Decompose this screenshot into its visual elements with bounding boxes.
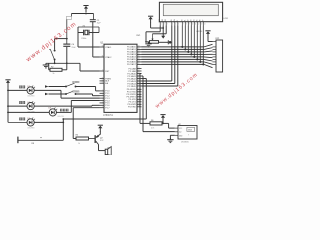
- ground reset: [43, 63, 49, 68]
- svg-text:1k: 1k: [78, 143, 80, 145]
- svg-text:30pF: 30pF: [97, 23, 101, 25]
- wire P2.2 to R6: [140, 74, 150, 124]
- wire wiper to VEE: [153, 26, 167, 34]
- wire P0 bus lines: [142, 44, 213, 67]
- svg-text:36: 36: [138, 53, 140, 55]
- node VCC rail: [72, 13, 94, 15]
- power VCC R6: [160, 115, 165, 125]
- wire rail left drop: [71, 14, 73, 17]
- U1 left pin stubs and labels: [100, 46, 113, 110]
- wire VDD: [151, 23, 164, 28]
- svg-text:D6: D6: [199, 20, 201, 22]
- svg-text:LED-YEL: LED-YEL: [58, 116, 65, 118]
- svg-text:R6: R6: [151, 120, 153, 122]
- switch SW2: [45, 91, 79, 96]
- svg-text:4.7k: 4.7k: [151, 127, 154, 129]
- power VCC Q2 emitter: [98, 125, 103, 134]
- wire RST to pin: [80, 63, 100, 71]
- svg-text:LED-RED: LED-RED: [28, 128, 36, 130]
- node label box: [66, 17, 71, 20]
- svg-text:26: 26: [138, 80, 140, 82]
- svg-text:33: 33: [138, 61, 140, 63]
- wire P2.3 to DQ: [142, 76, 175, 132]
- LED D1: [19, 86, 35, 98]
- svg-text:LCD1: LCD1: [224, 18, 229, 20]
- LED D3: [49, 108, 69, 118]
- svg-text:P2.7/A15: P2.7/A15: [127, 85, 136, 88]
- svg-text:32: 32: [138, 63, 140, 65]
- sensor U2 DS18B20: [175, 124, 197, 143]
- wire D1 to P1.3: [34, 90, 99, 98]
- wire crystal right: [98, 27, 100, 33]
- ground LCD VSS: [145, 42, 151, 47]
- U1 right pin stubs and labels: [127, 46, 142, 109]
- wire R5 to base: [89, 138, 95, 140]
- wire D3 to P1.4: [56, 101, 99, 113]
- svg-text:D7: D7: [202, 20, 204, 22]
- svg-text:1k: 1k: [53, 73, 55, 75]
- LED D2: [19, 101, 35, 113]
- wire rail to D1: [7, 90, 27, 92]
- svg-text:12: 12: [138, 93, 140, 95]
- wire E to P2.7: [142, 26, 178, 87]
- svg-text:38: 38: [138, 48, 140, 50]
- svg-text:17: 17: [138, 106, 140, 108]
- wire P1.7 to R5: [73, 108, 99, 139]
- LCD pin labels and stubs: [159, 18, 205, 25]
- resistor R2: [50, 67, 62, 76]
- wire rail right drop: [93, 14, 95, 20]
- power VCC top: [83, 6, 88, 13]
- wire VSS to ground: [146, 26, 160, 42]
- power VCC LCD VDD: [148, 16, 153, 23]
- crystal X1: [78, 25, 99, 40]
- svg-text:23: 23: [138, 72, 140, 74]
- wire R2 left: [49, 63, 50, 70]
- svg-text:18B20: 18B20: [188, 129, 193, 131]
- wire to C4: [66, 20, 68, 44]
- svg-text:10: 10: [138, 88, 140, 90]
- wire P2.4 long: [63, 79, 146, 120]
- power VCC RP1: [205, 31, 212, 42]
- wire rail to D4: [8, 121, 27, 123]
- capacitor C5: [90, 20, 101, 25]
- svg-text:21: 21: [138, 67, 140, 69]
- LCD1 LM016L display: [159, 2, 228, 33]
- svg-text:30: 30: [102, 80, 104, 82]
- wire RW to P2.6: [142, 26, 175, 84]
- op-amp U1 microcontroller AT89C51: [101, 43, 138, 117]
- wire crystal left: [78, 27, 100, 47]
- wire R6 to U2 VCC: [162, 123, 175, 128]
- svg-text:22: 22: [138, 70, 140, 72]
- svg-text:D5: D5: [196, 20, 198, 22]
- svg-text:D0: D0: [181, 20, 183, 22]
- svg-text:16: 16: [138, 103, 140, 105]
- svg-text:25: 25: [138, 77, 140, 79]
- wire LCD data drops: [181, 26, 204, 66]
- svg-text:D3: D3: [190, 20, 192, 22]
- wire U2 GND: [170, 135, 174, 139]
- svg-text:R2: R2: [51, 67, 53, 69]
- wire rail to D2: [7, 105, 27, 107]
- svg-text:D2: D2: [187, 20, 189, 22]
- wire collector to speaker: [99, 145, 106, 151]
- svg-text:LED-RED: LED-RED: [28, 96, 36, 98]
- svg-text:9012: 9012: [100, 140, 104, 142]
- svg-text:R5: R5: [76, 134, 78, 136]
- resistor R6: [150, 120, 162, 130]
- svg-text:28: 28: [138, 85, 140, 87]
- wire RS to P2.5: [142, 26, 172, 82]
- svg-text:R8: R8: [32, 143, 34, 145]
- svg-text:DS18B20: DS18B20: [181, 141, 189, 143]
- svg-text:D1: D1: [184, 20, 186, 22]
- node RV1 right terminal: [159, 40, 172, 44]
- resistor pack RP1: [216, 38, 223, 72]
- svg-text:11: 11: [138, 91, 140, 93]
- potentiometer RV1: [137, 34, 159, 43]
- svg-text:31: 31: [102, 82, 104, 84]
- wire C4 bottom to RST node: [66, 47, 68, 64]
- svg-text:XTAL1: XTAL1: [105, 46, 112, 49]
- svg-text:P0.7/AD7: P0.7/AD7: [127, 63, 137, 66]
- LED D4: [19, 118, 35, 130]
- svg-text:19: 19: [102, 46, 104, 48]
- svg-text:14: 14: [138, 98, 140, 100]
- wire SW2 to P1.2: [76, 94, 100, 96]
- resistor R5: [76, 134, 89, 145]
- svg-text:37: 37: [138, 51, 140, 53]
- node terminal bar: [17, 137, 41, 145]
- RP1 stubs: [213, 42, 217, 65]
- wire D4 down to terminal: [18, 122, 64, 141]
- wire C5 to XTAL2: [93, 22, 100, 57]
- svg-text:39: 39: [138, 46, 140, 48]
- wire RST node: [46, 62, 80, 64]
- power VCC LED rail: [5, 80, 10, 123]
- transistor Q2: [95, 134, 104, 144]
- speaker LS1: [105, 147, 111, 156]
- switch SW1: [45, 81, 79, 88]
- svg-text:13: 13: [138, 96, 140, 98]
- svg-text:18: 18: [102, 56, 104, 58]
- wire rail to D3: [7, 112, 49, 114]
- svg-text:D4: D4: [193, 20, 195, 22]
- wire D4 to P2.4 line: [34, 118, 64, 122]
- svg-text:AT89C51: AT89C51: [103, 114, 114, 117]
- wire button bottom: [54, 60, 56, 64]
- capacitor C4: [63, 44, 76, 49]
- svg-text:15: 15: [138, 101, 140, 103]
- wire SW1 to P1.0: [76, 87, 100, 91]
- svg-text:XTAL2: XTAL2: [105, 56, 112, 59]
- wire branch to button: [55, 38, 68, 50]
- svg-text:RST: RST: [105, 71, 110, 73]
- wire crystal loop top: [78, 26, 99, 28]
- ground U2: [167, 138, 173, 143]
- wire R2 right: [62, 63, 67, 70]
- svg-text:29: 29: [102, 77, 104, 79]
- button K1 reset: [33, 49, 56, 60]
- svg-text:34: 34: [138, 58, 140, 60]
- ground arrow VDD: [161, 27, 165, 38]
- svg-text:12MHz: 12MHz: [81, 38, 87, 40]
- svg-text:24: 24: [138, 75, 140, 77]
- svg-text:35: 35: [138, 56, 140, 58]
- wire D2 to P1.6: [34, 104, 99, 107]
- svg-text:27: 27: [138, 82, 140, 84]
- svg-text:P3.7/RD: P3.7/RD: [128, 107, 136, 109]
